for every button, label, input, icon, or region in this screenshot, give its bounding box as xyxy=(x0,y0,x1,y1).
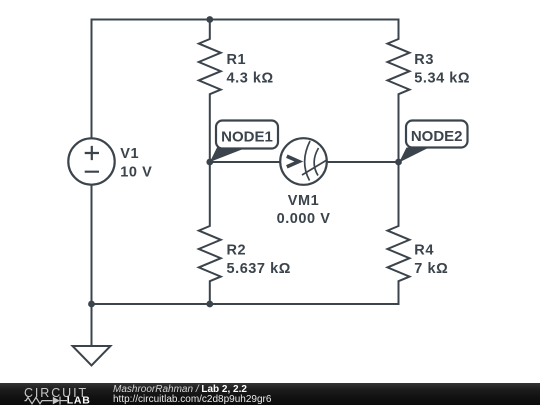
wire bottom rail xyxy=(92,303,399,305)
svg-text:R3: R3 xyxy=(414,52,434,68)
CircuitLab logo xyxy=(0,383,100,405)
svg-text:5.34 kΩ: 5.34 kΩ xyxy=(414,71,470,87)
wire middle horizontal (node1 to node2) xyxy=(210,161,399,163)
node NODE2 flag xyxy=(399,121,468,163)
resistor R2 xyxy=(199,162,221,304)
ground xyxy=(73,304,111,366)
svg-text:R1: R1 xyxy=(227,52,247,68)
svg-text:V1: V1 xyxy=(120,146,139,162)
resistor R3 xyxy=(388,20,410,163)
footer bar xyxy=(0,383,540,405)
footer credit line xyxy=(113,385,271,404)
resistor R4 xyxy=(388,162,410,304)
resistor R1 xyxy=(199,20,221,163)
junction dot node1 xyxy=(206,159,213,166)
voltage source V1 xyxy=(68,138,114,184)
svg-text:R4: R4 xyxy=(414,243,434,259)
svg-text:7 kΩ: 7 kΩ xyxy=(414,261,448,277)
junction dot top xyxy=(206,16,213,23)
wire left rail xyxy=(91,20,93,305)
svg-text:LAB: LAB xyxy=(67,395,91,406)
svg-text:10 V: 10 V xyxy=(120,165,152,181)
svg-text:5.637 kΩ: 5.637 kΩ xyxy=(227,261,291,277)
junction dot bottom middle xyxy=(206,301,213,308)
svg-text:0.000 V: 0.000 V xyxy=(277,211,331,227)
junction dot ground xyxy=(88,301,95,308)
svg-text:NODE2: NODE2 xyxy=(411,128,463,145)
voltmeter VM1 xyxy=(280,138,327,185)
node NODE1 flag xyxy=(210,121,278,163)
wire top rail xyxy=(92,19,399,21)
svg-text:NODE1: NODE1 xyxy=(221,129,273,146)
junction dot node2 xyxy=(395,159,402,166)
svg-text:4.3 kΩ: 4.3 kΩ xyxy=(227,71,274,87)
svg-text:R2: R2 xyxy=(227,243,247,259)
svg-text:VM1: VM1 xyxy=(288,193,319,209)
